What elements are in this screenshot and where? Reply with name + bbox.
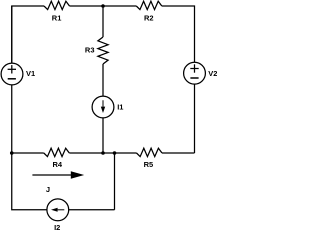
svg-text:R3: R3 — [85, 46, 95, 55]
wire bottom left segment — [12, 153, 47, 210]
wire I1 to middle row junction — [102, 118, 104, 153]
node junction left — [10, 151, 14, 155]
resistor R3 — [98, 37, 108, 64]
wire V1 to left junction — [11, 85, 13, 153]
wire top junction to R2 — [103, 5, 136, 7]
wire R2 to top-right corner down to V2 — [162, 6, 195, 63]
svg-text:R4: R4 — [53, 160, 63, 169]
node junction top — [101, 4, 105, 8]
svg-text:R1: R1 — [52, 13, 62, 22]
I2 arrow — [58, 209, 65, 211]
voltage source V1 — [1, 63, 23, 85]
node junction middle row bottom branch — [113, 151, 117, 155]
wire bottom branch vertical — [114, 153, 116, 210]
V1 minus sign — [8, 78, 16, 80]
wire V1 top lead — [11, 6, 13, 63]
svg-text:I2: I2 — [54, 223, 60, 232]
svg-text:J: J — [46, 185, 50, 194]
wire junction to R5 — [115, 152, 137, 154]
svg-text:R2: R2 — [144, 13, 154, 22]
current arrow J — [32, 174, 72, 176]
wire R3 lead from top junction — [102, 6, 104, 37]
svg-text:V1: V1 — [26, 69, 35, 78]
wire between middle junctions — [103, 152, 115, 154]
resistor R1 — [44, 1, 70, 9]
wire V2 to R5 row — [194, 84, 196, 153]
current source I2 — [47, 199, 69, 221]
resistor R5 — [137, 148, 163, 156]
V2 plus sign — [190, 68, 198, 70]
V1 plus sign — [8, 68, 16, 70]
svg-text:V2: V2 — [208, 69, 217, 78]
resistor R4 — [44, 148, 70, 156]
wire R1 to top junction — [70, 5, 104, 7]
wire R4 to middle junction — [69, 152, 103, 154]
node junction middle row I1 branch — [101, 151, 105, 155]
resistor R2 — [136, 1, 162, 9]
wire R5 to right wire — [162, 152, 195, 154]
svg-text:R5: R5 — [144, 160, 154, 169]
I1 arrow — [102, 100, 104, 107]
svg-text:I1: I1 — [117, 102, 123, 111]
wire top-left to R1 — [12, 6, 44, 63]
wire R3 to I1 — [102, 64, 104, 96]
wire left junction to R4 — [12, 152, 44, 154]
voltage source V2 — [184, 62, 206, 84]
V2 minus sign — [190, 77, 198, 79]
current source I1 — [92, 96, 114, 118]
wire bottom right segment — [69, 209, 115, 211]
